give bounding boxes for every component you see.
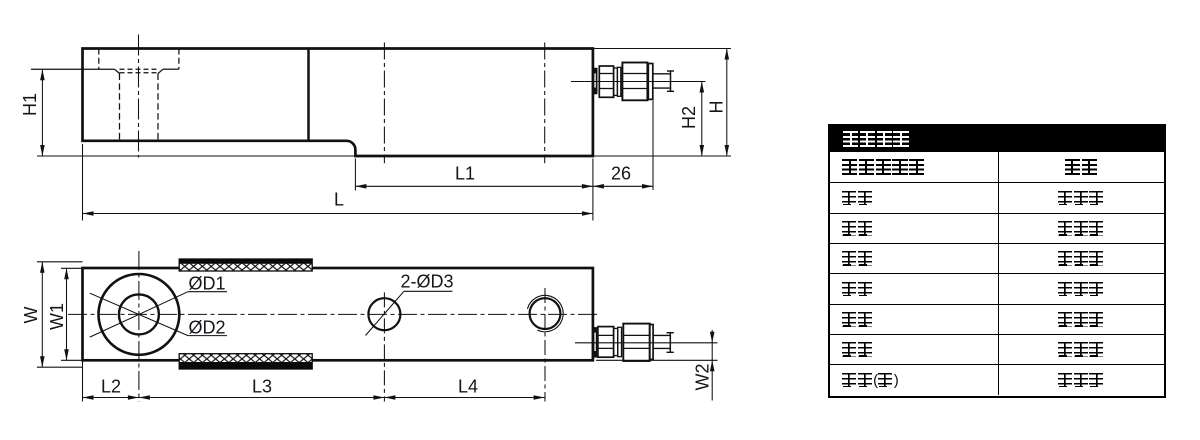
svg-text:26: 26 (611, 164, 631, 184)
svg-text:2-ØD3: 2-ØD3 (400, 272, 453, 292)
svg-text:W1: W1 (47, 303, 67, 330)
svg-text:L2: L2 (101, 377, 121, 397)
svg-text:H1: H1 (20, 93, 40, 116)
svg-text:W: W (21, 307, 41, 324)
svg-text:L4: L4 (458, 377, 478, 397)
svg-text:L3: L3 (252, 377, 272, 397)
svg-text:W2: W2 (692, 364, 712, 391)
svg-text:ØD1: ØD1 (188, 274, 225, 294)
svg-text:L: L (334, 190, 344, 210)
svg-text:ØD2: ØD2 (188, 318, 225, 338)
svg-text:L1: L1 (455, 164, 475, 184)
svg-text:H: H (706, 101, 726, 114)
svg-text:H2: H2 (679, 106, 699, 129)
